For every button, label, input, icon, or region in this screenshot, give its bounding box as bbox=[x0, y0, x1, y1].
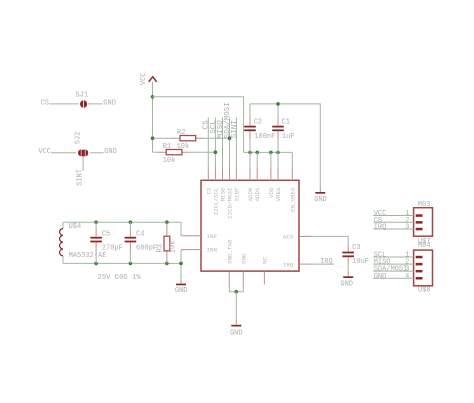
wire C3 to ground bbox=[347, 265, 349, 273]
svg-text:R3: R3 bbox=[157, 244, 165, 252]
wire CS vertical bbox=[207, 118, 209, 168]
svg-text:100nF: 100nF bbox=[254, 133, 275, 141]
svg-text:M04: M04 bbox=[418, 242, 431, 250]
svg-text:C3: C3 bbox=[352, 244, 360, 252]
capacitor C1 bbox=[272, 118, 294, 141]
resistor R2 bbox=[153, 129, 230, 151]
wire tank bottom rail bbox=[63, 262, 181, 264]
wire ACS to C3 bbox=[313, 236, 348, 243]
svg-text:10k: 10k bbox=[163, 157, 176, 165]
wire bottom rail up to INN bbox=[180, 250, 182, 264]
wire header pin 1 VCC bbox=[373, 215, 413, 217]
wire SDA/MOSI vertical bbox=[229, 118, 231, 168]
svg-text:IRQ: IRQ bbox=[374, 224, 387, 232]
svg-text:10uF: 10uF bbox=[352, 258, 369, 266]
svg-text:CS: CS bbox=[41, 99, 49, 107]
wire header pin 3 IRQ bbox=[373, 228, 413, 230]
pin stubs IC top bbox=[208, 167, 292, 180]
wire tank top rail bbox=[63, 222, 181, 236]
capacitor C3 bbox=[342, 244, 369, 266]
svg-text:VDD: VDD bbox=[268, 187, 275, 198]
solder jumper SJ2 bbox=[51, 132, 104, 171]
svg-text:M03: M03 bbox=[418, 201, 431, 209]
node R3 bottom junction bbox=[165, 262, 169, 266]
svg-text:U$4: U$4 bbox=[69, 223, 82, 231]
svg-text:U$8: U$8 bbox=[418, 287, 431, 295]
svg-text:GND: GND bbox=[240, 253, 247, 264]
svg-text:GND: GND bbox=[103, 99, 116, 107]
svg-text:C5: C5 bbox=[102, 231, 110, 239]
IC U1 AS3935 bbox=[201, 180, 299, 271]
svg-text:25V C0G 1%: 25V C0G 1% bbox=[98, 274, 142, 282]
capacitor C2 bbox=[244, 118, 275, 141]
svg-text:VREG: VREG bbox=[275, 187, 282, 201]
wire capacitor top rail to GND bbox=[250, 104, 320, 187]
wire header pin 2 CS bbox=[373, 221, 413, 223]
node VREG junction bbox=[276, 151, 280, 155]
wire header pin 2 MISO bbox=[373, 263, 413, 265]
svg-text:IRQ: IRQ bbox=[283, 261, 294, 268]
node R2 left junction bbox=[151, 136, 155, 140]
capacitor C4 bbox=[125, 222, 157, 263]
node C1 top junction bbox=[276, 102, 280, 106]
wire header pin 4 GND bbox=[373, 277, 413, 279]
node ADD1 junction bbox=[255, 151, 259, 155]
svg-text:SINT: SINT bbox=[77, 169, 85, 186]
svg-text:GND: GND bbox=[340, 281, 353, 289]
svg-text:INN: INN bbox=[207, 247, 218, 254]
pin stub INN bbox=[181, 249, 201, 251]
svg-text:ADD1: ADD1 bbox=[254, 187, 261, 201]
resistor R1 bbox=[153, 143, 216, 165]
ground symbol (tank circuit) bbox=[175, 280, 188, 295]
svg-text:CS: CS bbox=[205, 187, 212, 194]
svg-text:NC: NC bbox=[262, 256, 269, 263]
ground symbol (C3) bbox=[340, 273, 353, 289]
wire C2 bottom to ADD0 pin bbox=[249, 131, 251, 167]
node C4 top junction bbox=[129, 220, 133, 224]
wire GND_TAB/GND tie bbox=[229, 287, 243, 292]
node INN/GND junction bbox=[179, 262, 183, 266]
svg-text:INP: INP bbox=[207, 233, 218, 240]
antenna coil U$4 bbox=[60, 222, 107, 263]
wire header pin 1 SCL bbox=[373, 256, 413, 258]
node C4 bottom junction bbox=[129, 262, 133, 266]
svg-text:C2: C2 bbox=[254, 119, 262, 127]
svg-text:GND: GND bbox=[104, 148, 117, 156]
svg-text:GND: GND bbox=[374, 273, 387, 281]
ground symbol (below IC) bbox=[230, 321, 243, 338]
pin stub GND_TAB bbox=[228, 271, 230, 287]
wire VDD pin drop bbox=[270, 152, 272, 167]
pin stub GND bbox=[242, 271, 244, 287]
wire C2 top lead bbox=[249, 104, 251, 126]
resistor R3 bbox=[157, 222, 178, 263]
svg-text:GND: GND bbox=[175, 287, 188, 295]
wire VCC stem and left rail down to R1 bbox=[152, 82, 154, 152]
wire VCC rail to ADD/VDD/VREG pins bbox=[244, 151, 293, 153]
node R1 to SCL junction bbox=[214, 150, 218, 154]
solder jumper SJ1 bbox=[50, 92, 103, 108]
svg-text:1uF: 1uF bbox=[282, 133, 295, 141]
wire down to ground bbox=[235, 292, 237, 321]
wire C1 top lead bbox=[277, 104, 279, 126]
svg-text:MISO: MISO bbox=[220, 187, 227, 201]
power symbol VCC bbox=[140, 72, 157, 85]
wire bottom rail down to ground bbox=[180, 263, 182, 279]
wire SCL vertical bbox=[214, 118, 216, 168]
node VCC junction bbox=[151, 95, 155, 99]
svg-text:SJ2: SJ2 bbox=[75, 132, 83, 145]
svg-text:R2: R2 bbox=[177, 129, 185, 137]
pin stub ACS bbox=[299, 235, 313, 237]
wire ADD1 pin drop bbox=[256, 152, 258, 167]
node ADD0 junction bbox=[248, 151, 252, 155]
svg-text:SJ1: SJ1 bbox=[75, 92, 88, 100]
wire header pin 3 SDA/MOSI bbox=[373, 270, 413, 272]
connector U$7 M03 bbox=[414, 201, 433, 246]
ground symbol (top right, decoupling rail) bbox=[314, 187, 327, 204]
svg-text:R1: R1 bbox=[163, 143, 171, 151]
svg-text:GND: GND bbox=[314, 196, 327, 204]
svg-text:680pF: 680pF bbox=[136, 245, 157, 253]
node C5 top junction bbox=[94, 220, 98, 224]
node R3 top junction bbox=[165, 220, 169, 224]
svg-text:4: 4 bbox=[405, 273, 409, 281]
pin stub NC bbox=[263, 271, 265, 284]
wire EN_VREG drop bbox=[291, 152, 293, 167]
pin stub IRQ bbox=[299, 263, 310, 265]
wire IRQ stub bbox=[310, 263, 334, 265]
node R2 to SDA/MOSI junction bbox=[228, 136, 232, 140]
svg-text:3: 3 bbox=[405, 224, 409, 232]
svg-text:ACS: ACS bbox=[283, 233, 294, 240]
svg-text:VCC: VCC bbox=[38, 148, 51, 156]
svg-text:270pF: 270pF bbox=[102, 245, 123, 253]
node C5 bottom junction bbox=[94, 262, 98, 266]
svg-text:GND: GND bbox=[230, 329, 243, 337]
svg-text:I2CL/SCL: I2CL/SCL bbox=[212, 187, 219, 215]
svg-text:MA5532-AE: MA5532-AE bbox=[69, 252, 107, 260]
svg-text:ADD0: ADD0 bbox=[247, 187, 254, 201]
svg-text:SINT: SINT bbox=[231, 120, 239, 139]
svg-text:SINT: SINT bbox=[233, 187, 240, 201]
wire VCC top rail bbox=[153, 97, 244, 153]
capacitor C5 bbox=[90, 222, 123, 263]
svg-text:C4: C4 bbox=[136, 231, 144, 239]
pin stub INP bbox=[181, 235, 201, 237]
svg-text:GND_TAB: GND_TAB bbox=[226, 239, 233, 264]
svg-text:IRQ: IRQ bbox=[320, 258, 333, 266]
wire C1 bottom to VREG pin bbox=[277, 131, 279, 167]
svg-text:10k: 10k bbox=[169, 241, 177, 254]
svg-text:C1: C1 bbox=[282, 119, 290, 127]
svg-text:EN_VREG: EN_VREG bbox=[289, 187, 296, 212]
node VDD junction bbox=[269, 151, 273, 155]
svg-text:VCC: VCC bbox=[140, 72, 148, 85]
wire SINT vertical bbox=[235, 118, 237, 168]
node GND tie junction bbox=[235, 290, 239, 294]
connector U$8 M04 bbox=[414, 242, 433, 295]
wire MISO vertical bbox=[222, 118, 224, 168]
